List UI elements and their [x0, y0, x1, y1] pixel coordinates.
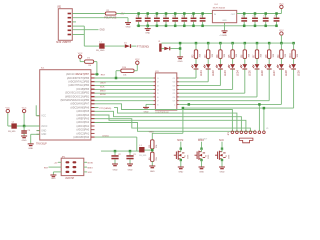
- svg-text:LED4: LED4: [237, 70, 239, 76]
- svg-text:LED9: LED9: [100, 83, 106, 85]
- svg-text:LED1: LED1: [201, 70, 203, 76]
- svg-text:SCK: SCK: [100, 87, 105, 89]
- svg-text:GND: GND: [28, 148, 33, 150]
- svg-text:GND: GND: [222, 20, 227, 22]
- svg-text:LED3: LED3: [225, 70, 227, 76]
- svg-text:LED5: LED5: [250, 70, 252, 76]
- svg-text:R10: R10: [290, 53, 292, 58]
- svg-text:RST: RST: [101, 74, 106, 76]
- svg-text:GND: GND: [199, 172, 204, 174]
- svg-text:GND: GND: [220, 172, 225, 174]
- svg-text:GND: GND: [22, 140, 27, 142]
- svg-text:LED2: LED2: [213, 70, 215, 76]
- svg-text:U$1: U$1: [57, 7, 62, 9]
- svg-text:MINI USBPTH: MINI USBPTH: [56, 42, 71, 44]
- svg-text:VCC: VCC: [22, 107, 27, 109]
- svg-text:OUT: OUT: [231, 14, 236, 16]
- svg-text:GND: GND: [126, 27, 131, 29]
- svg-text:VCC: VCC: [5, 107, 10, 109]
- svg-text:FB_GND: FB_GND: [96, 50, 105, 52]
- svg-text:1%: 1%: [87, 58, 90, 60]
- svg-text:LED6: LED6: [262, 70, 264, 76]
- svg-text:(ADC0)PA0: (ADC0)PA0: [77, 129, 90, 132]
- svg-text:GND: GND: [51, 178, 56, 179]
- svg-text:VCC: VCC: [135, 59, 140, 61]
- svg-text:(ADC9/INT0/T0)PB6: (ADC9/INT0/T0)PB6: [67, 77, 90, 80]
- svg-text:LED7: LED7: [274, 70, 276, 76]
- svg-text:GND: GND: [222, 35, 227, 37]
- svg-text:C17: C17: [200, 16, 203, 18]
- svg-text:(ADC10: (ADC10: [66, 73, 75, 76]
- svg-text:VCC: VCC: [279, 30, 284, 32]
- svg-text:LED10: LED10: [102, 135, 109, 137]
- svg-text:C15: C15: [182, 16, 185, 18]
- svg-text:C16: C16: [191, 16, 194, 18]
- svg-text:MOSI: MOSI: [88, 163, 94, 165]
- svg-text:VCC: VCC: [41, 116, 46, 118]
- svg-text:C8: C8: [274, 16, 276, 18]
- svg-text:MISO: MISO: [100, 90, 106, 92]
- svg-text:POLYFUSE: POLYFUSE: [104, 17, 117, 19]
- svg-text:GND: GND: [145, 33, 150, 35]
- svg-text:SCK: SCK: [219, 139, 224, 142]
- svg-text:PTT(SEND): PTT(SEND): [137, 46, 149, 48]
- svg-text:C11: C11: [145, 16, 148, 18]
- svg-text:AVR ISP: AVR ISP: [65, 177, 74, 179]
- svg-text:SCK: SCK: [88, 172, 93, 174]
- svg-text:GND: GND: [128, 169, 133, 171]
- svg-text:C7: C7: [263, 16, 265, 18]
- svg-text:GND: GND: [178, 172, 183, 174]
- svg-text:LED8: LED8: [286, 70, 288, 76]
- svg-text:(ADC4)PA5: (ADC4)PA5: [77, 110, 90, 113]
- svg-text:(ADC1)PA1: (ADC1)PA1: [77, 125, 90, 128]
- svg-text:C14: C14: [173, 16, 176, 18]
- svg-text:MISO: MISO: [88, 167, 94, 169]
- svg-text:(AREF)PA3: (AREF)PA3: [77, 118, 90, 121]
- svg-text:C12: C12: [154, 16, 157, 18]
- svg-text:PTT(SEND): PTT(SEND): [100, 108, 112, 110]
- svg-text:C6: C6: [253, 16, 255, 18]
- svg-text:AVCC: AVCC: [41, 125, 47, 128]
- svg-text:MISO: MISO: [198, 139, 204, 142]
- svg-text:(MOSI/DI/SDA/OC1A)PB0: (MOSI/DI/SDA/OC1A)PB0: [61, 99, 90, 102]
- svg-text:GND: GND: [150, 171, 155, 173]
- svg-text:VCC: VCC: [78, 53, 83, 55]
- svg-text:(ADC6/AIN1)PA7: (ADC6/AIN1)PA7: [70, 103, 89, 106]
- svg-text:(ADC0/DI)PA0: (ADC0/DI)PA0: [73, 136, 89, 139]
- svg-text:/RESET)PB7: /RESET)PB7: [75, 73, 90, 76]
- svg-text:(OC1B)PB3: (OC1B)PB3: [76, 88, 90, 91]
- svg-text:MOSI: MOSI: [177, 139, 183, 142]
- svg-text:(MISO/DO/OC1A)PB1: (MISO/DO/OC1A)PB1: [65, 95, 90, 98]
- svg-text:(ADC2)PA1: (ADC2)PA1: [77, 132, 90, 135]
- svg-text:(ADC3)PA4: (ADC3)PA4: [77, 114, 90, 117]
- svg-text:(ADC8/XTAL2)PB5: (ADC8/XTAL2)PB5: [68, 81, 89, 84]
- svg-text:C10: C10: [136, 16, 139, 18]
- svg-text:FB_MID: FB_MID: [139, 155, 147, 157]
- svg-text:MCP1700CB: MCP1700CB: [213, 7, 226, 9]
- svg-text:GND: GND: [100, 30, 105, 32]
- svg-text:C5: C5: [242, 16, 244, 18]
- svg-text:10k: 10k: [123, 74, 126, 76]
- svg-text:VCC: VCC: [279, 3, 284, 5]
- svg-text:GND: GND: [41, 131, 46, 133]
- svg-text:GND: GND: [178, 61, 183, 63]
- svg-text:TINY26LP: TINY26LP: [36, 144, 47, 146]
- svg-text:GND: GND: [113, 169, 118, 171]
- svg-text:GND: GND: [41, 134, 46, 136]
- svg-text:LED9: LED9: [298, 70, 300, 76]
- svg-text:MOSI: MOSI: [100, 94, 106, 96]
- svg-text:(ADC2)PA2: (ADC2)PA2: [77, 121, 90, 124]
- svg-text:(SCK/SCL/OC1B)PB2: (SCK/SCL/OC1B)PB2: [65, 92, 90, 95]
- svg-text:+5V: +5V: [54, 163, 58, 165]
- svg-text:RST: RST: [44, 167, 49, 169]
- svg-text:(ADC7/XTAL1)PB4: (ADC7/XTAL1)PB4: [68, 84, 89, 87]
- svg-text:(ADC5/AIN0)PA6: (ADC5/AIN0)PA6: [70, 106, 89, 109]
- svg-text:FB_MID: FB_MID: [8, 131, 16, 133]
- svg-text:C13: C13: [163, 16, 166, 18]
